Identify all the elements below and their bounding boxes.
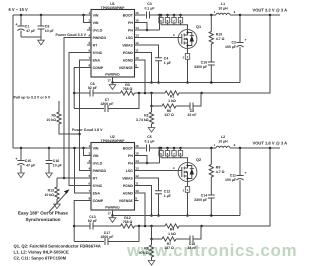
wire PH pin14 [139, 162, 160, 164]
wire PH pin14 [139, 29, 160, 31]
pin 3 UVLO of U1 [87, 29, 91, 31]
wire PGND [139, 186, 152, 216]
transistor Q2 (N-MOSFET with body diode) [178, 163, 197, 182]
svg-text:11: 11 [135, 181, 139, 185]
svg-text:7: 7 [88, 189, 90, 193]
svg-text:150 µF: 150 µF [225, 45, 237, 49]
svg-text:VOUT 3.3 V @ 3 A: VOUT 3.3 V @ 3 A [253, 8, 288, 13]
junction vout-sense [269, 14, 272, 17]
junction drain pin 5 [160, 14, 163, 17]
wire vout sense [202, 148, 271, 226]
svg-text:+: + [245, 38, 247, 42]
junction vout-cap [239, 147, 242, 150]
svg-text:L1, L2: Vishay IHLP-5050CE: L1, L2: Vishay IHLP-5050CE [14, 250, 70, 255]
pin 8 COMP of U2 [87, 200, 91, 202]
pin 13 LSG of U2 [135, 170, 139, 172]
junction vin2 pin2 [82, 147, 85, 150]
op-amp/regulator IC U1 TPS54350PWP [91, 10, 135, 78]
wire VBIAS cap to bus [158, 194, 160, 216]
svg-text:C16: C16 [53, 159, 59, 163]
pin box source of Q2 [187, 181, 189, 186]
svg-text:47 µF: 47 µF [26, 29, 36, 33]
svg-text:16: 16 [135, 144, 139, 148]
wire COMP [74, 68, 87, 109]
svg-text:R12: R12 [124, 216, 130, 220]
svg-text:C4: C4 [164, 57, 169, 61]
pin 14 PH of U1 [135, 29, 139, 31]
wire ENA1 to PWRGD2 [80, 60, 88, 171]
svg-text:1: 1 [88, 144, 90, 148]
pin 5 RT of U2 [87, 177, 91, 179]
svg-text:PH: PH [128, 154, 133, 158]
svg-text:976 Ω: 976 Ω [139, 251, 149, 255]
svg-text:1 kΩ: 1 kΩ [168, 232, 176, 236]
pin 11 PGND of U1 [135, 52, 139, 54]
svg-text:UVLO: UVLO [93, 161, 103, 165]
svg-text:ENA: ENA [93, 58, 101, 62]
svg-text:Q1, Q2: Fairchild Semiconducto: Q1, Q2: Fairchild Semiconductor FDR6674A [14, 244, 101, 249]
wire divider vertical [151, 93, 153, 106]
svg-text:Pull up to 3.3 V or 5 V: Pull up to 3.3 V or 5 V [14, 95, 51, 99]
svg-text:11: 11 [135, 48, 139, 52]
svg-text:TPS54350PWP: TPS54350PWP [101, 6, 125, 10]
svg-text:R1: R1 [170, 95, 175, 99]
wire comp row left [74, 225, 90, 227]
wire branch right [193, 93, 201, 106]
junction vin pin2 [82, 14, 85, 17]
ground (divider) [148, 128, 155, 133]
junction C15 [20, 147, 23, 150]
pin 17 PWRPAD of U2 [112, 210, 114, 216]
svg-text:14: 14 [135, 159, 139, 163]
pin box 5 of Q1 [160, 15, 162, 18]
ground (C16) [46, 173, 53, 178]
svg-text:6: 6 [88, 181, 90, 185]
junction snubber-bus [210, 214, 213, 217]
svg-text:PGND: PGND [123, 51, 134, 55]
junction C7 tap [138, 225, 141, 228]
pin 15 PH of U2 [135, 155, 139, 157]
svg-text:PH: PH [128, 161, 133, 165]
wire input cap gnd [21, 36, 41, 38]
wire branch mid [176, 105, 190, 107]
svg-text:SYNC: SYNC [93, 184, 103, 188]
junction C9 [40, 14, 43, 17]
pin 7 ENA of U1 [87, 59, 91, 61]
svg-text:3.74 kΩ: 3.74 kΩ [136, 118, 149, 122]
pin box 7 of Q1 [173, 15, 175, 18]
svg-text:VSENSE: VSENSE [119, 199, 134, 203]
svg-text:10 µF: 10 µF [45, 29, 55, 33]
svg-text:13: 13 [135, 33, 139, 37]
capacitor C18 [190, 236, 193, 243]
resistor R8 [151, 239, 153, 245]
pin box 6 of Q1 [167, 15, 169, 18]
capacitor C6 [90, 90, 93, 97]
svg-text:3: 3 [88, 26, 90, 30]
pin 13 LSG of U1 [135, 37, 139, 39]
op-amp/regulator IC U2 TPS54350PWP [91, 143, 135, 211]
junction PH-snubber [210, 147, 213, 150]
svg-text:Power Good 1.8 V: Power Good 1.8 V [72, 128, 103, 132]
junction drain pin 6 [166, 14, 169, 17]
svg-text:47 µF: 47 µF [26, 164, 36, 168]
resistor R13 (RT) [56, 178, 58, 187]
svg-text:137 Ω: 137 Ω [164, 113, 174, 117]
pin 1 VIN of U1 [87, 14, 91, 16]
wire LSG gate [139, 170, 179, 172]
capacitor C8 [190, 103, 193, 110]
svg-text:0.1 µF: 0.1 µF [145, 140, 156, 144]
wire PH pin15 [139, 156, 148, 164]
wire branch right [193, 226, 201, 239]
capacitor C12 [155, 191, 162, 194]
svg-text:12: 12 [135, 174, 139, 178]
junction divider tap [150, 92, 153, 95]
pin 4 PWRGD of U1 [87, 37, 91, 39]
wire input rail [13, 14, 87, 16]
svg-text:82 pF: 82 pF [88, 219, 98, 223]
wire PH to snubber R [210, 15, 212, 32]
junction vout-cap [239, 14, 242, 17]
svg-text:+: + [245, 171, 247, 175]
node PH (boot) [158, 14, 161, 17]
svg-text:150 µF: 150 µF [225, 178, 237, 182]
svg-text:2: 2 [88, 151, 90, 155]
svg-text:C11: C11 [230, 174, 236, 178]
wire comp row left [74, 92, 90, 94]
wire comp row mid [93, 92, 121, 94]
capacitor C13 [90, 223, 93, 230]
svg-text:14: 14 [135, 26, 139, 30]
svg-text:768 Ω: 768 Ω [123, 87, 133, 91]
svg-text:C6: C6 [90, 82, 95, 86]
node PH (boot) [158, 147, 161, 150]
wire comp row mid [93, 225, 121, 227]
transistor Q1 (N-MOSFET with body diode) [178, 30, 197, 49]
svg-text:9: 9 [135, 63, 137, 67]
svg-text:C15: C15 [25, 159, 31, 163]
wire comp row right [135, 92, 166, 94]
svg-text:6 V − 15 V: 6 V − 15 V [9, 7, 29, 12]
wire branch left [152, 238, 163, 240]
svg-text:1800 pF: 1800 pF [100, 235, 114, 239]
pin box 5 of Q2 [160, 148, 162, 151]
ground (PWRPAD) [109, 218, 116, 223]
pin 9 VSENSE of U1 [135, 67, 139, 69]
pin box 8 of Q1 [180, 15, 182, 18]
junction power good 1.8 [78, 133, 81, 136]
svg-text:R5: R5 [52, 114, 57, 118]
wire COMP [74, 201, 87, 242]
junction vsense tap [144, 92, 147, 95]
pin 9 VSENSE of U2 [135, 200, 139, 202]
capacitor C11 (polarized) [239, 148, 241, 176]
svg-text:AGND: AGND [123, 191, 134, 195]
pin 12 VBIAS of U1 [135, 44, 139, 46]
junction PH-snubber [210, 14, 213, 17]
wire fb row right [179, 92, 201, 94]
svg-text:8: 8 [88, 196, 90, 200]
wire comp row right [135, 225, 166, 227]
capacitor C10 [208, 62, 215, 65]
pin 11 PGND of U2 [135, 185, 139, 187]
junction divider tap [150, 225, 153, 228]
capacitor C3 [147, 12, 150, 19]
wire PH rail [160, 14, 217, 16]
wire to pin 2 U2 [84, 148, 88, 156]
wire branch left [152, 105, 163, 107]
junction PH pins [146, 29, 149, 32]
junction drain pin 8 [179, 14, 182, 17]
svg-text:PWRPAD: PWRPAD [105, 206, 120, 210]
svg-text:8: 8 [88, 63, 90, 67]
svg-text:VOUT 1.8 V @ 3 A: VOUT 1.8 V @ 3 A [253, 141, 288, 146]
pin 2 VIN of U2 [87, 155, 91, 157]
capacitor C15 (input 2, polarized) [20, 148, 22, 161]
svg-text:82 pF: 82 pF [88, 86, 98, 90]
wire PH to snubber R [210, 148, 212, 165]
junction source-bus [186, 81, 189, 84]
svg-text:17: 17 [107, 79, 111, 83]
junction ENA2 rail [73, 147, 76, 150]
wire PH vertical [159, 15, 161, 30]
wire PGND [139, 53, 152, 83]
wire ground bus [113, 215, 241, 217]
svg-text:1 µF: 1 µF [164, 61, 172, 65]
ground (divider) [148, 261, 155, 266]
svg-text:4.7 Ω: 4.7 Ω [216, 37, 225, 41]
pin box source of Q1 [187, 48, 189, 53]
svg-text:9: 9 [135, 196, 137, 200]
svg-text:C1: C1 [25, 25, 30, 29]
svg-text:AGND: AGND [123, 58, 134, 62]
wire snubber to bus [210, 65, 212, 83]
svg-text:17: 17 [107, 212, 111, 216]
resistor R10 [209, 32, 213, 44]
capacitor C14 [208, 195, 215, 198]
svg-text:SYNC: SYNC [93, 51, 103, 55]
capacitor C16 (input 2) [48, 148, 50, 161]
svg-text:16: 16 [135, 11, 139, 15]
wire BOOT [139, 14, 146, 16]
junction PH pins [146, 162, 149, 165]
wire VBIAS cap to bus [158, 61, 160, 83]
junction source-bus [186, 214, 189, 217]
capacitor C17 loop [74, 241, 104, 243]
svg-text:PH: PH [128, 28, 133, 32]
pin 12 VBIAS of U2 [135, 177, 139, 179]
svg-text:VIN: VIN [93, 13, 99, 17]
svg-text:VIN: VIN [93, 21, 99, 25]
pin 5 RT of U1 [87, 44, 91, 46]
svg-text:10 µF: 10 µF [53, 164, 63, 168]
svg-text:C8: C8 [190, 109, 195, 113]
svg-text:C14: C14 [201, 194, 207, 198]
capacitor C4 [155, 58, 162, 61]
junction drain pin 7 [173, 147, 176, 150]
ground (R13) [54, 204, 61, 209]
svg-text:L2: L2 [221, 135, 225, 139]
svg-text:Power Good 3.3 V: Power Good 3.3 V [55, 33, 86, 37]
junction drain pin 5 [160, 147, 163, 150]
pin 10 AGND of U2 [135, 192, 139, 194]
svg-text:2: 2 [88, 18, 90, 22]
svg-text:COMP: COMP [93, 199, 104, 203]
junction snubber-bus [210, 81, 213, 84]
wire ground bus [113, 82, 241, 84]
svg-text:R4: R4 [170, 228, 175, 232]
pin 10 AGND of U1 [135, 59, 139, 61]
junction vout-sense [269, 147, 272, 150]
svg-text:VBIAS: VBIAS [122, 43, 133, 47]
wire divider vertical [151, 226, 153, 239]
pin 14 PH of U2 [135, 162, 139, 164]
svg-text:Q2: Q2 [196, 158, 201, 162]
svg-text:10 kΩ: 10 kΩ [44, 193, 54, 197]
junction sense-feedback [200, 225, 203, 228]
svg-text:R2: R2 [144, 114, 149, 118]
pin 1 VIN of U2 [87, 147, 91, 149]
svg-text:PGND: PGND [123, 184, 134, 188]
wire LSG gate [139, 37, 179, 39]
resistor R3 [121, 91, 135, 95]
junction branch [150, 105, 153, 108]
junction C7 tap [138, 92, 141, 95]
ground (input) [40, 37, 42, 40]
wire drain bus [161, 25, 188, 30]
junction comp [73, 225, 76, 228]
svg-text:PWRGD: PWRGD [93, 36, 107, 40]
svg-text:C13: C13 [89, 215, 95, 219]
svg-text:4: 4 [88, 166, 90, 170]
svg-text:33 nF: 33 nF [187, 246, 197, 250]
pin 16 BOOT of U2 [135, 147, 139, 149]
svg-text:C9: C9 [45, 25, 50, 29]
svg-text:R3: R3 [125, 83, 130, 87]
svg-text:R13: R13 [48, 189, 54, 193]
svg-text:5: 5 [88, 174, 90, 178]
ground (PWRPAD) [109, 85, 116, 90]
svg-text:0.1 µF: 0.1 µF [145, 7, 156, 11]
svg-text:10 µH: 10 µH [218, 6, 228, 10]
wire PH rail [160, 147, 217, 149]
svg-text:1 µF: 1 µF [164, 194, 172, 198]
svg-text:13: 13 [135, 166, 139, 170]
junction comp [73, 92, 76, 95]
svg-text:12: 12 [135, 41, 139, 45]
resistor R6 [162, 104, 176, 108]
resistor R7 [162, 237, 176, 241]
svg-text:Easy 180° Out of Phase: Easy 180° Out of Phase [18, 211, 69, 216]
pin box 7 of Q2 [173, 148, 175, 151]
pin 6 SYNC of U2 [87, 185, 91, 187]
svg-text:PWRPAD: PWRPAD [105, 73, 120, 77]
svg-text:C10: C10 [201, 61, 207, 65]
svg-text:R8: R8 [144, 247, 149, 251]
svg-text:PWRGD: PWRGD [93, 169, 107, 173]
wire input rail down [12, 15, 14, 148]
svg-text:LSG: LSG [126, 169, 133, 173]
svg-text:10 µH: 10 µH [218, 139, 228, 143]
junction RT2 [63, 177, 66, 180]
wire PWRGD1 to RT2 [64, 38, 87, 179]
svg-text:TPS54350PWP: TPS54350PWP [101, 139, 125, 143]
svg-text:C5: C5 [147, 135, 152, 139]
pin 7 ENA of U2 [87, 192, 91, 194]
svg-text:C2, C11: Sanyo 6TPC150M: C2, C11: Sanyo 6TPC150M [14, 256, 67, 261]
svg-text:Synchronization: Synchronization [25, 217, 60, 222]
resistor R1 [165, 91, 179, 95]
wire BOOT [139, 147, 146, 149]
pin 8 COMP of U1 [87, 67, 91, 69]
svg-text:3: 3 [88, 159, 90, 163]
svg-text:ENA: ENA [93, 191, 101, 195]
svg-text:VIN: VIN [93, 146, 99, 150]
svg-text:C12: C12 [164, 190, 170, 194]
svg-text:137 Ω: 137 Ω [164, 246, 174, 250]
wire fb row right [179, 225, 201, 227]
svg-text:PH: PH [128, 21, 133, 25]
pin 17 PWRPAD of U1 [112, 77, 114, 83]
svg-text:L1: L1 [221, 2, 225, 6]
wire VOUT rail [230, 14, 280, 16]
wire RT2 row [57, 177, 87, 179]
svg-text:6: 6 [88, 48, 90, 52]
svg-text:4.7 Ω: 4.7 Ω [216, 170, 225, 174]
svg-text:1 kΩ: 1 kΩ [168, 99, 176, 103]
wire input rail 2 [13, 147, 87, 149]
annotation arrow (sync) [49, 193, 67, 213]
svg-text:1800 pF: 1800 pF [100, 102, 114, 106]
svg-text:15: 15 [135, 18, 139, 22]
ground (C15) [18, 173, 25, 178]
wire SYNC1 to SYNC2 [69, 53, 87, 186]
svg-text:BOOT: BOOT [123, 146, 134, 150]
wire boot to PH node [150, 147, 160, 149]
junction drain pin 8 [179, 147, 182, 150]
junction vbias-bus [157, 214, 160, 217]
svg-text:R9: R9 [216, 166, 221, 170]
capacitor C2 (polarized) [239, 15, 241, 43]
wire snubber to bus [210, 198, 212, 216]
wire VSENSE [139, 60, 146, 93]
wire VBIAS [139, 45, 159, 58]
pin box 6 of Q2 [167, 148, 169, 151]
wire ENA2 tie [75, 148, 88, 193]
capacitor C7 loop [74, 108, 104, 110]
wire source to ground bus [187, 59, 189, 82]
svg-text:UVLO: UVLO [93, 28, 103, 32]
svg-text:15: 15 [135, 151, 139, 155]
junction vsense tap [144, 225, 147, 228]
svg-text:7: 7 [88, 56, 90, 60]
svg-text:3300 pF: 3300 pF [194, 65, 208, 69]
svg-text:VSENSE: VSENSE [119, 66, 134, 70]
svg-text:C18: C18 [189, 242, 195, 246]
capacitor C1 (input, polarized) [20, 15, 22, 26]
wire VOUT rail [230, 147, 280, 149]
svg-text:VIN: VIN [93, 154, 99, 158]
wire branch mid [176, 238, 190, 240]
svg-text:4: 4 [88, 33, 90, 37]
svg-text:C2: C2 [232, 41, 237, 45]
junction sense-feedback [200, 92, 203, 95]
svg-text:C3: C3 [147, 2, 152, 6]
pin 4 PWRGD of U2 [87, 170, 91, 172]
wire source to ground bus [187, 192, 189, 215]
junction pgnd-bus [150, 214, 153, 217]
